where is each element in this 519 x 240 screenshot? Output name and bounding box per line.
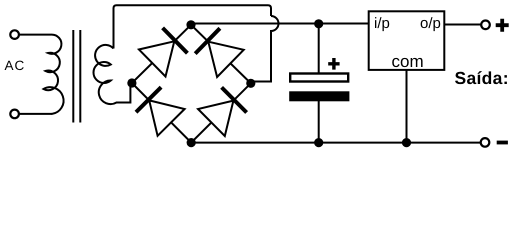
node: bridge left junction bbox=[127, 78, 136, 87]
output terminal - bbox=[481, 138, 490, 147]
diode D3 (lower-left) bbox=[149, 100, 184, 135]
node: capacitor top junction bbox=[314, 19, 323, 28]
svg-text:i/p: i/p bbox=[374, 15, 390, 32]
node: bridge bottom junction bbox=[187, 138, 196, 147]
transformer T1 secondary winding bbox=[93, 45, 130, 104]
regulator U1 box bbox=[369, 11, 445, 70]
bridge diamond edges bbox=[132, 25, 251, 143]
minus symbol bbox=[497, 141, 508, 145]
capacitor C1 plus label bbox=[328, 58, 339, 70]
diode D4 (lower-right) bbox=[198, 101, 233, 136]
wire from top terminal to primary bbox=[19, 34, 51, 36]
capacitor C1 negative plate bbox=[289, 91, 349, 101]
wire: secondary top rail hop over + rail bbox=[252, 16, 279, 82]
diode D2 (upper-right) bbox=[208, 42, 243, 77]
wire: regulator com to - rail bbox=[406, 70, 408, 143]
plus symbol bbox=[496, 19, 509, 32]
capacitor C1 top lead bbox=[318, 24, 320, 74]
node: capacitor bottom junction bbox=[314, 138, 323, 147]
transformer T1 primary winding bbox=[44, 35, 64, 114]
wire: + rail from bridge top node to regulator bbox=[191, 23, 369, 25]
svg-text:o/p: o/p bbox=[420, 15, 441, 32]
svg-text:com: com bbox=[392, 52, 424, 71]
wire: bottom - rail bbox=[191, 142, 481, 144]
svg-text:AC: AC bbox=[5, 58, 26, 73]
node: bridge right junction bbox=[246, 79, 255, 88]
wire from bottom terminal to primary bbox=[19, 113, 51, 115]
transformer core bbox=[72, 30, 74, 123]
svg-text:Saída:: Saída: bbox=[455, 68, 509, 88]
wire: regulator output to + terminal bbox=[444, 24, 481, 26]
node: bridge top junction bbox=[186, 20, 195, 29]
AC input terminal bottom bbox=[10, 110, 19, 119]
node: com ground junction bbox=[402, 138, 411, 147]
capacitor C1 bottom lead bbox=[318, 101, 320, 143]
diode D1 (upper-left) bbox=[139, 41, 174, 76]
AC input terminal top bbox=[10, 30, 19, 39]
output terminal + bbox=[481, 21, 490, 30]
capacitor C1 positive plate bbox=[290, 74, 348, 82]
